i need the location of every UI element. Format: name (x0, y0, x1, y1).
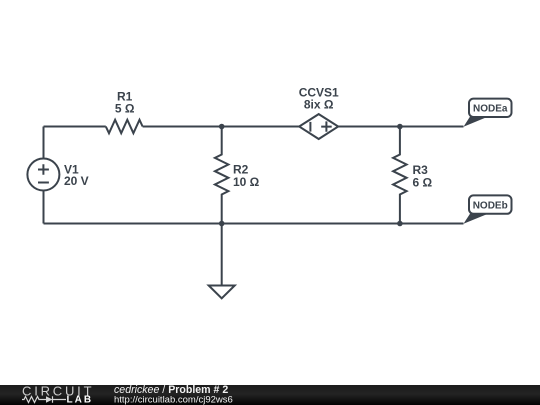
svg-text:8ix Ω: 8ix Ω (304, 98, 334, 112)
svg-text:10 Ω: 10 Ω (233, 175, 260, 189)
resistor R3 (393, 127, 407, 224)
svg-text:NODEa: NODEa (473, 104, 508, 115)
wire: bottom rail (44, 223, 464, 225)
node junction at R2 bottom / ground (219, 221, 225, 227)
node flag NODEb (464, 195, 512, 223)
svg-text:NODEb: NODEb (473, 200, 508, 211)
resistor R1 (106, 120, 143, 133)
wire: top rail left segment (44, 126, 106, 128)
R3 label (413, 163, 433, 189)
node junction at R3 top (397, 124, 403, 130)
dependent source CCVS1 (299, 114, 338, 139)
svg-text:6 Ω: 6 Ω (413, 175, 433, 189)
svg-text:LAB: LAB (67, 395, 94, 405)
wire: V1 bottom to bottom rail (43, 191, 45, 224)
CircuitLab logo: resistor-diode symbol (22, 396, 66, 402)
R1 label (115, 90, 135, 116)
R2 label (233, 163, 260, 189)
resistor R2 (215, 127, 229, 224)
svg-text:5 Ω: 5 Ω (115, 102, 135, 116)
svg-text:20 V: 20 V (64, 174, 89, 188)
node junction at R3 bottom (397, 221, 403, 227)
node flag NODEa (464, 99, 512, 127)
ground (209, 224, 235, 299)
voltage source V1 (27, 159, 59, 191)
node junction at R2 top (219, 124, 225, 130)
svg-text:http://circuitlab.com/cj92ws6: http://circuitlab.com/cj92ws6 (114, 395, 233, 405)
wire: R1 to CCVS1 (143, 126, 300, 128)
CCVS1 label (299, 86, 339, 112)
wire: left branch top (top rail to V1) (43, 127, 45, 159)
V1 label (64, 163, 89, 189)
wire: CCVS1 to NODEa (338, 126, 463, 128)
